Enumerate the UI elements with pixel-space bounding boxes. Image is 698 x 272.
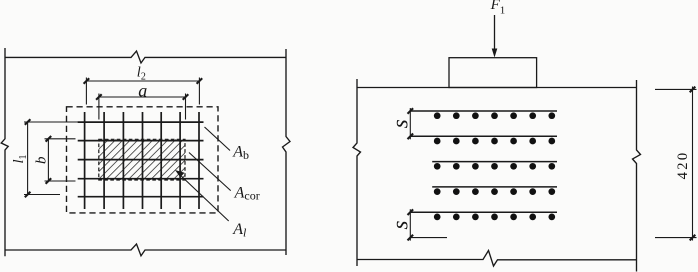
dimension l2 (84, 78, 203, 105)
label 420 (rotated) (675, 150, 691, 179)
dimension s top (408, 108, 414, 139)
dimension 420 (655, 87, 697, 241)
right edge with break (633, 80, 641, 272)
dimension a (96, 94, 188, 120)
svg-text:Acor: Acor (234, 184, 260, 202)
force F1 arrow (494, 15, 496, 50)
hatched core rectangle Acor / Al (99, 139, 185, 180)
rebar dots row 2 (434, 138, 555, 145)
svg-text:b: b (33, 156, 49, 164)
bottom edge with break (357, 251, 637, 267)
svg-text:Al: Al (232, 221, 247, 239)
svg-text:F1: F1 (490, 0, 506, 16)
svg-text:l1: l1 (11, 154, 29, 163)
svg-text:s: s (387, 221, 412, 230)
reinforcement layer 1 (410, 111, 557, 212)
label b (rotated) (33, 156, 49, 164)
mesh grid vertical bars (85, 112, 199, 209)
label l1 (rotated) (11, 154, 29, 163)
rebar dots row 5 (434, 214, 555, 221)
svg-text:s: s (387, 119, 412, 128)
rebar dots row 3 (434, 163, 555, 170)
left edge with break (353, 79, 361, 266)
top edge with break (5, 51, 286, 63)
svg-text:Ab: Ab (232, 144, 249, 162)
left edge with break (1, 48, 8, 256)
svg-text:420: 420 (675, 150, 691, 179)
dimension b (45, 136, 76, 184)
top edge (357, 87, 637, 89)
dimension s bottom (408, 209, 448, 240)
rebar dots row 1 (434, 112, 555, 119)
leader Acor (189, 153, 231, 191)
label s bottom (rotated) (387, 221, 412, 230)
dimension l1 (24, 119, 78, 197)
left block outline (plan view of footing) (1, 48, 290, 256)
dashed rectangle Ab (67, 107, 219, 213)
rebar dots row 4 (434, 188, 555, 195)
leader Ab (205, 127, 231, 151)
right block outline (elevation) (353, 79, 641, 272)
label s top (rotated) (387, 119, 412, 128)
mesh grid horizontal bars (78, 122, 204, 197)
right edge with break (283, 49, 291, 255)
svg-text:a: a (138, 80, 147, 100)
bearing plate (449, 58, 537, 88)
bottom edge with break (5, 244, 286, 256)
leader Al with arrowhead (178, 173, 229, 222)
